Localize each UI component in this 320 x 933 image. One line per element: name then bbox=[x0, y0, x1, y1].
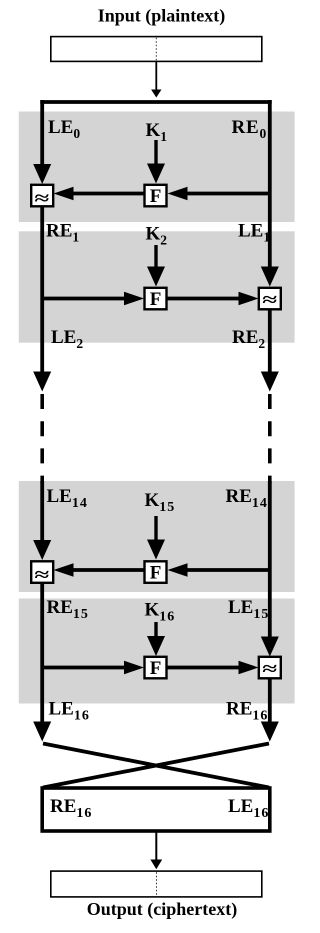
wire right bus to F3 bbox=[186, 568, 268, 572]
outer box top edge bbox=[40, 100, 271, 104]
dashed left bus wire bbox=[40, 394, 44, 483]
input box bbox=[51, 37, 262, 62]
arrowhead into XOR2 bbox=[261, 267, 279, 287]
arrowhead into XOR4 bbox=[261, 637, 279, 657]
left bus wire rounds 2-3 bbox=[40, 207, 44, 372]
arrowhead K1 into F1 bbox=[147, 164, 165, 184]
wire F3 to XOR3 bbox=[73, 568, 145, 572]
arrowhead right bus mid bbox=[261, 372, 279, 392]
arrowhead into F3 right side bbox=[168, 563, 188, 577]
arrowhead into XOR1 right side bbox=[54, 187, 74, 201]
dashed right bus wire bbox=[268, 394, 272, 483]
wire F1 to XOR1 bbox=[73, 192, 145, 196]
wire left bus to F4 bbox=[44, 666, 124, 670]
wire right bus to F1 bbox=[186, 192, 268, 196]
F function box F3 bbox=[145, 561, 167, 583]
F function box F4 bbox=[145, 657, 167, 679]
arrowhead input bbox=[151, 90, 161, 98]
arrowhead output bbox=[150, 860, 162, 870]
arrowhead into XOR1 bbox=[33, 164, 51, 184]
svg-text:F: F bbox=[150, 658, 162, 679]
gray band round 16 bbox=[19, 599, 295, 704]
XOR box X1 bbox=[31, 185, 53, 207]
key K1 arrow wire bbox=[154, 140, 157, 165]
input box center dotted divider bbox=[155, 38, 157, 61]
svg-text:F: F bbox=[150, 563, 162, 584]
left bus wire round 15 bbox=[40, 481, 44, 542]
arrowhead into F1 right side bbox=[168, 187, 188, 201]
arrowhead into F4 left side bbox=[124, 661, 144, 675]
svg-text:F: F bbox=[150, 289, 162, 310]
wire F4 to XOR4 bbox=[167, 666, 239, 670]
swap output box bbox=[42, 788, 270, 831]
arrowhead K2 into F2 bbox=[147, 267, 165, 287]
wire swap box to output bbox=[155, 832, 157, 861]
wire input to outer box bbox=[155, 62, 157, 91]
wire F2 to XOR2 bbox=[167, 297, 239, 301]
arrowhead K16 into F4 bbox=[147, 636, 165, 656]
arrowhead into XOR3 bbox=[33, 540, 51, 560]
arrowhead into F2 left side bbox=[124, 292, 144, 306]
gray band round 1 bbox=[19, 112, 295, 223]
svg-text:≈: ≈ bbox=[34, 189, 49, 209]
gray band round 2 bbox=[19, 231, 295, 342]
arrowhead into XOR4 left side bbox=[239, 661, 259, 675]
right bus wire below XOR2 bbox=[268, 310, 272, 372]
arrowhead right bus bottom bbox=[261, 722, 279, 742]
XOR box X4 bbox=[259, 657, 281, 679]
F function box F1 bbox=[145, 185, 167, 207]
swap cross wire left-to-right bbox=[43, 744, 269, 788]
arrowhead K15 into F3 bbox=[147, 540, 165, 560]
svg-text:≈: ≈ bbox=[262, 659, 277, 679]
svg-text:≈: ≈ bbox=[262, 290, 277, 310]
right bus wire below XOR4 bbox=[268, 679, 272, 723]
key K2 arrow wire bbox=[154, 245, 157, 268]
svg-text:F: F bbox=[150, 186, 162, 207]
left bus wire below XOR3 bbox=[40, 583, 44, 723]
svg-text:Output (ciphertext): Output (ciphertext) bbox=[87, 899, 237, 920]
arrowhead left bus bottom bbox=[33, 722, 51, 742]
output box center dotted divider bbox=[156, 872, 158, 896]
gray band round 15 bbox=[19, 481, 295, 592]
key K15 arrow wire bbox=[154, 516, 157, 541]
XOR box X3 bbox=[31, 561, 53, 583]
key K16 arrow wire bbox=[154, 622, 157, 637]
XOR box X2 bbox=[259, 288, 281, 310]
arrowhead into XOR3 right side bbox=[54, 563, 74, 577]
arrowhead left bus mid bbox=[33, 372, 51, 392]
swap cross wire right-to-left bbox=[43, 744, 269, 788]
output box bbox=[51, 871, 262, 897]
svg-text:≈: ≈ bbox=[34, 565, 49, 585]
wire left bus to F2 bbox=[44, 297, 124, 301]
left bus wire segment round1 bbox=[40, 100, 44, 167]
svg-text:Input (plaintext): Input (plaintext) bbox=[98, 6, 226, 27]
F function box F2 bbox=[145, 288, 167, 310]
right bus wire segment rounds1-2 bbox=[268, 100, 272, 268]
arrowhead into XOR2 left side bbox=[239, 292, 259, 306]
right bus wire rounds 15-16 bbox=[268, 481, 272, 638]
